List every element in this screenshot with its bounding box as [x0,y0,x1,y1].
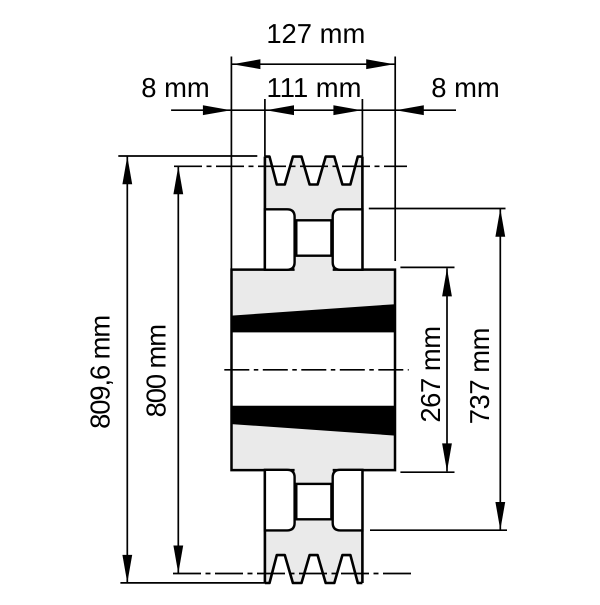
svg-text:267 mm: 267 mm [415,326,446,422]
svg-text:737 mm: 737 mm [464,328,495,424]
svg-text:809,6 mm: 809,6 mm [85,316,116,429]
svg-text:127 mm: 127 mm [266,18,365,49]
svg-text:8 mm: 8 mm [431,72,499,103]
svg-text:8 mm: 8 mm [141,72,209,103]
svg-text:800 mm: 800 mm [141,325,172,418]
svg-text:111 mm: 111 mm [267,72,362,103]
